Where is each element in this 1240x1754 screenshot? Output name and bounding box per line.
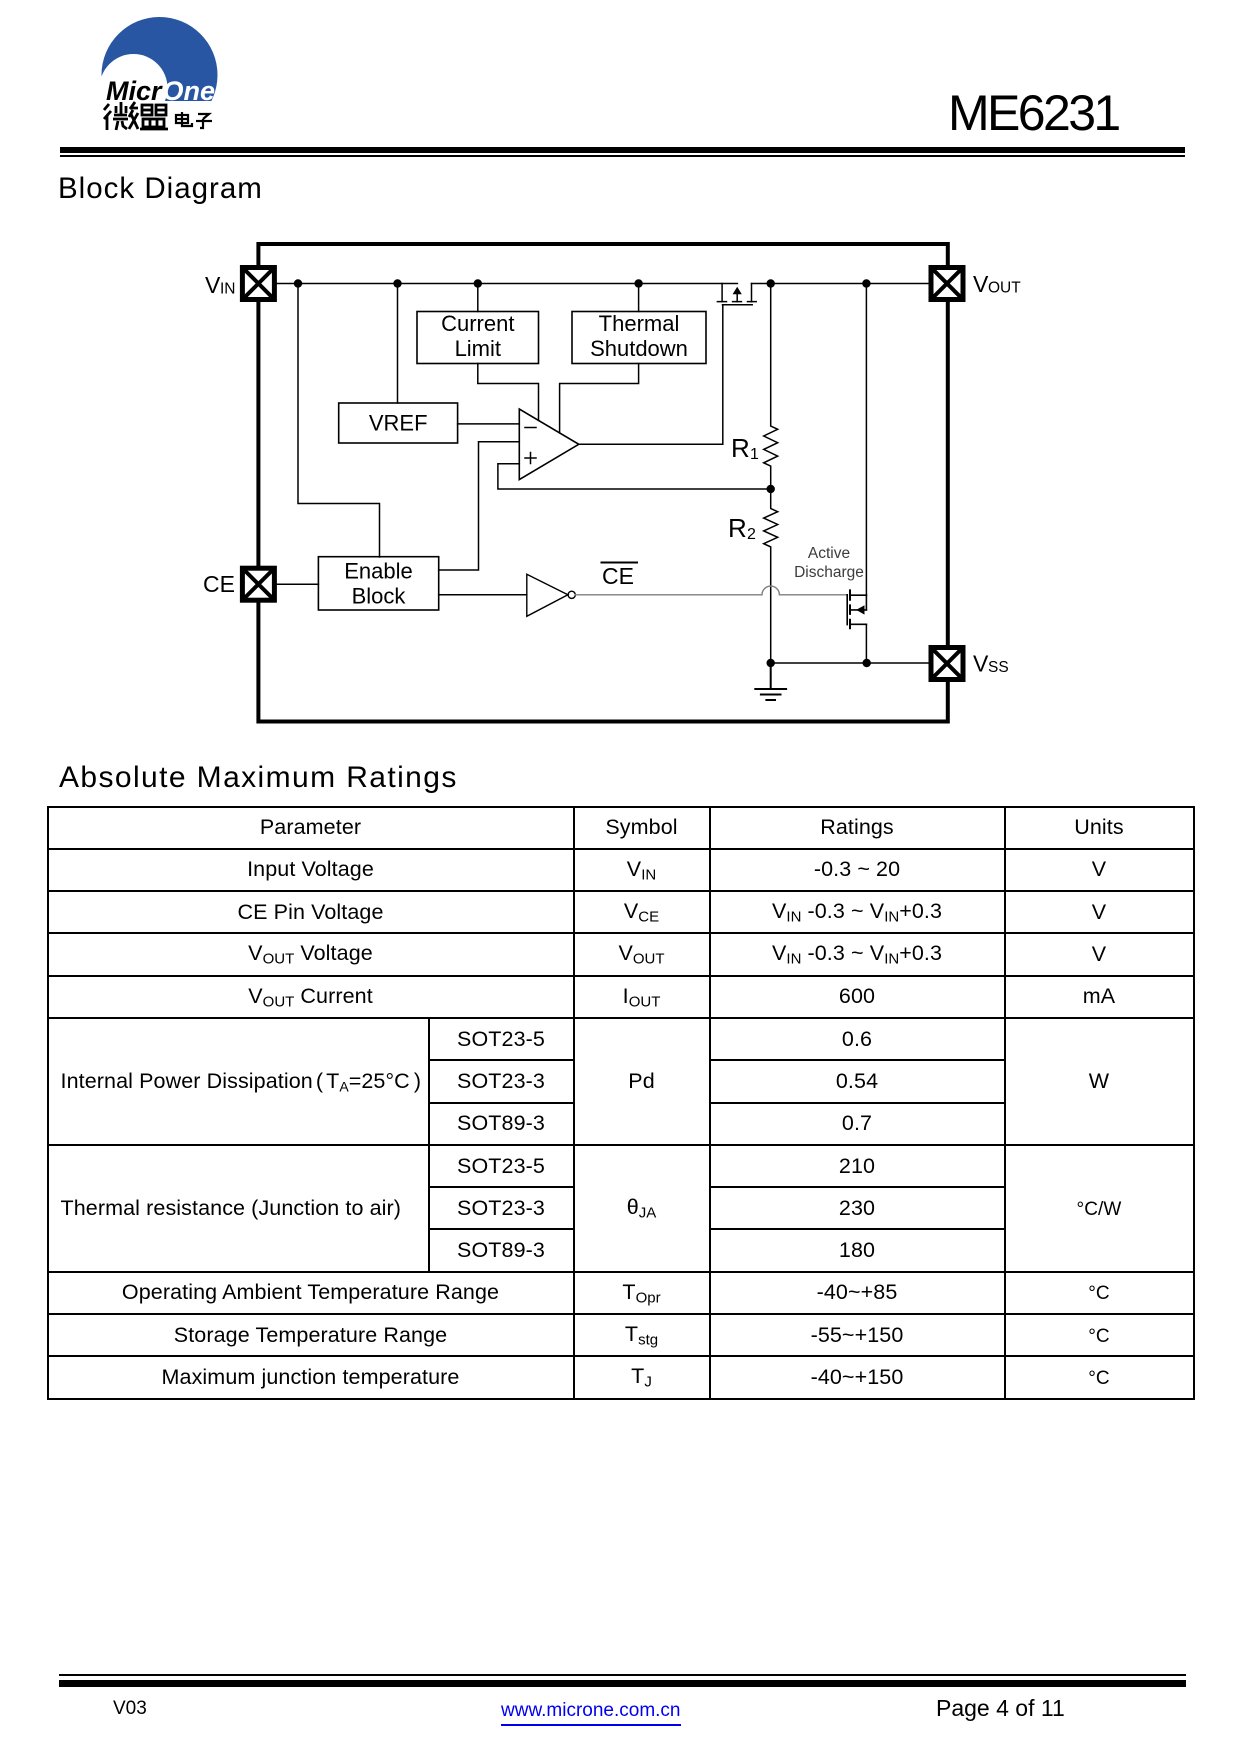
footer double rule [59,1674,1186,1676]
svg-text:VREF: VREF [369,411,428,436]
node dot rail 4 [634,279,642,287]
svg-text:OUT: OUT [988,280,1021,297]
svg-text:Shutdown: Shutdown [590,336,688,361]
footer link [501,1700,681,1726]
ME6231 title [948,84,1119,142]
current limit box [417,312,539,364]
transistor M1 PMOS pass [717,284,756,305]
footer V03 [113,1698,147,1720]
op-amp U1 [519,409,579,480]
wire enable block to op-amp [439,442,520,570]
svg-text:Discharge: Discharge [794,564,864,581]
thermal shutdown box [572,312,706,364]
port CE [242,568,274,600]
wire thermal shutdown to op-amp [560,364,639,433]
Absolute Maximum Ratings heading [59,761,458,795]
wire current limit to op-amp [478,364,539,421]
svg-text:Active: Active [808,545,850,562]
logo glyph wei [104,102,138,130]
node dot rail 3 [474,279,482,287]
svg-text:CE: CE [203,571,235,597]
svg-text:V: V [205,272,221,298]
node dot divider [767,485,775,493]
wire to current limit [477,284,479,312]
wire op-amp output to PMOS gate [579,305,723,445]
wire enable block to inverter [439,594,527,596]
wire drain from rail [865,284,867,596]
wire CE-bar to M2 gate with hop [575,586,847,595]
resistor R1 [764,284,778,490]
logo MicrOne [95,14,235,136]
svg-text:Micr: Micr [106,76,163,106]
outer boundary box [258,244,947,722]
svg-text:Block: Block [352,584,407,609]
inverter U2 [527,574,568,616]
transistor M2 active discharge NMOS [847,590,866,628]
svg-text:SS: SS [988,659,1009,676]
wire source to bottom rail [865,624,867,663]
svg-text:V: V [973,271,989,297]
svg-text:V: V [973,651,989,677]
logo glyph zi [196,114,212,128]
node dot rail drain [862,279,870,287]
svg-text:1: 1 [750,446,759,463]
node dot ground-bottom [767,659,775,667]
wire VREF to op-amp minus [458,423,520,425]
wire feedback plus input [498,464,771,489]
svg-text:2: 2 [747,526,756,543]
bottom rail wire to VSS [771,662,930,664]
node dot rail 1 [294,279,302,287]
svg-text:Limit: Limit [455,336,501,361]
header double rule [60,147,1185,153]
svg-text:Enable: Enable [344,559,413,584]
enable block box [318,557,438,610]
ground [755,663,786,700]
node dot source-bottom [863,659,871,667]
top rail wire [276,283,930,285]
node dot rail R1 top [767,279,775,287]
logo glyph meng [140,105,168,129]
wire to VREF [397,284,399,404]
svg-text:R: R [731,433,750,463]
port VSS [931,648,963,680]
logo glyph dian [176,112,192,126]
footer page [936,1695,1065,1722]
port VIN [242,268,274,300]
ratings table [47,806,1195,1400]
svg-text:Current: Current [441,311,514,336]
VREF box [339,403,458,443]
svg-text:IN: IN [220,281,236,298]
resistor R2 [764,489,778,663]
wire to thermal shutdown [638,284,640,312]
svg-text:CE: CE [602,563,634,589]
block diagram SVG [190,230,1050,730]
svg-text:Thermal: Thermal [599,311,680,336]
node dot rail 2 [393,279,401,287]
port VOUT [931,268,963,300]
wire CE port to enable block [276,583,318,585]
svg-text:R: R [728,513,747,543]
wire VIN branch to enable block [298,284,380,558]
Block Diagram heading [58,172,263,206]
svg-text:One: One [163,76,216,106]
